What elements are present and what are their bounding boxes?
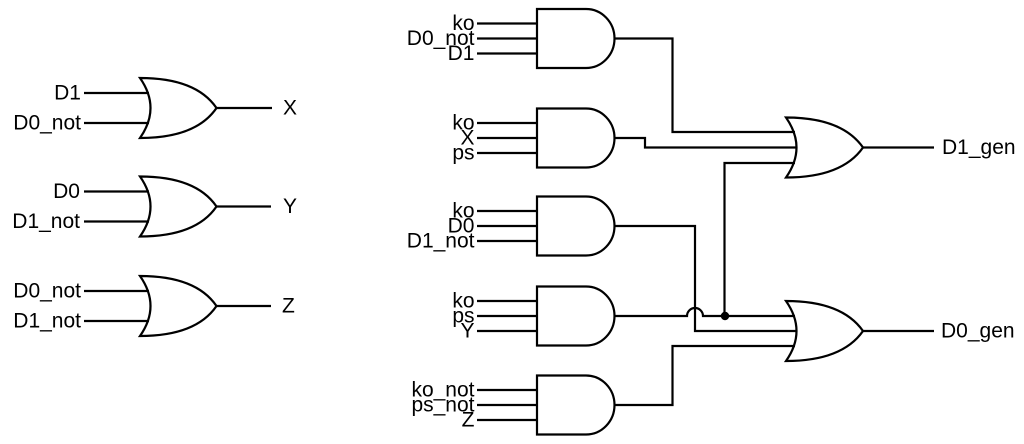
wire output Y: [217, 205, 272, 207]
svg-text:D0_not: D0_not: [13, 279, 81, 302]
wire input D0_not to and-gate A1: [477, 37, 538, 39]
wire input ko to and-gate A2: [477, 122, 538, 124]
svg-text:D1_gen: D1_gen: [942, 136, 1016, 159]
wire input D1_not to and-gate A3: [477, 240, 538, 242]
junction dot on node between A4 output and D1_gen branch: [721, 312, 729, 320]
wire input X to and-gate A2: [477, 137, 538, 139]
or-gate Y: [140, 177, 217, 237]
svg-text:Z: Z: [282, 294, 295, 317]
svg-text:ps: ps: [452, 141, 474, 164]
wire input ko to and-gate A3: [477, 210, 538, 212]
and-gate A4 (ko, ps, Y): [537, 287, 615, 346]
wire and-gate A1 output to or-gate D1_gen top input: [615, 39, 796, 133]
or-gate X: [140, 78, 217, 138]
wire and-gate A4 output with hop over A3 wire to or-gate D0_gen top input: [615, 308, 796, 316]
svg-text:D1: D1: [448, 42, 475, 65]
wire input ps to and-gate A4: [477, 315, 538, 317]
svg-text:X: X: [283, 96, 297, 119]
svg-text:Y: Y: [460, 319, 474, 342]
wire input ko_not to and-gate A5: [477, 389, 538, 391]
svg-text:Z: Z: [462, 408, 475, 431]
svg-text:D0: D0: [53, 180, 80, 203]
svg-text:D1_not: D1_not: [407, 229, 475, 252]
svg-text:D1: D1: [54, 81, 81, 104]
wire input ps_not to and-gate A5: [477, 404, 538, 406]
wire input D0 to and-gate A3: [477, 225, 538, 227]
wire input ko to and-gate A1: [477, 22, 538, 24]
svg-text:D1_not: D1_not: [13, 309, 81, 332]
svg-text:D1_not: D1_not: [12, 210, 80, 233]
wire input D1 to and-gate A1: [477, 52, 538, 54]
wire and-gate A5 output up to or-gate D0_gen bottom input: [615, 346, 796, 405]
wire output D0_gen: [863, 330, 934, 332]
wire output Z: [217, 305, 272, 307]
wire input Y to and-gate A4: [477, 330, 538, 332]
svg-text:D0_gen: D0_gen: [941, 319, 1015, 342]
or-gate D0_gen: [786, 301, 863, 361]
wire output D1_gen: [863, 146, 934, 148]
wire input D1_not to or-gate Z: [84, 320, 149, 322]
and-gate A5 (ko_not, ps_not, Z): [537, 376, 615, 435]
wire input D0_not to or-gate X: [84, 122, 149, 124]
or-gate D1_gen: [786, 118, 863, 178]
wire output X: [217, 107, 273, 109]
wire input D0 to or-gate Y: [84, 190, 149, 192]
wire from junction up to or-gate D1_gen bottom input: [725, 163, 796, 316]
wire input D1_not to or-gate Y: [84, 220, 149, 222]
wire and-gate A2 output to or-gate D1_gen middle input: [615, 138, 798, 148]
and-gate A2 (ko, X, ps): [537, 109, 615, 168]
and-gate A3 (ko, D0, D1_not): [537, 197, 615, 256]
wire input D1 to or-gate X: [84, 92, 149, 94]
or-gate Z: [140, 276, 217, 336]
svg-text:D0_not: D0_not: [13, 111, 81, 134]
wire input D0_not to or-gate Z: [84, 290, 149, 292]
wire input ps to and-gate A2: [477, 152, 538, 154]
wire input ko to and-gate A4: [477, 300, 538, 302]
svg-text:Y: Y: [283, 195, 297, 218]
wire input Z to and-gate A5: [477, 419, 538, 421]
wire and-gate A3 output down to or-gate D0_gen middle input: [615, 226, 798, 331]
and-gate A1 (ko, D0_not, D1): [537, 9, 615, 68]
